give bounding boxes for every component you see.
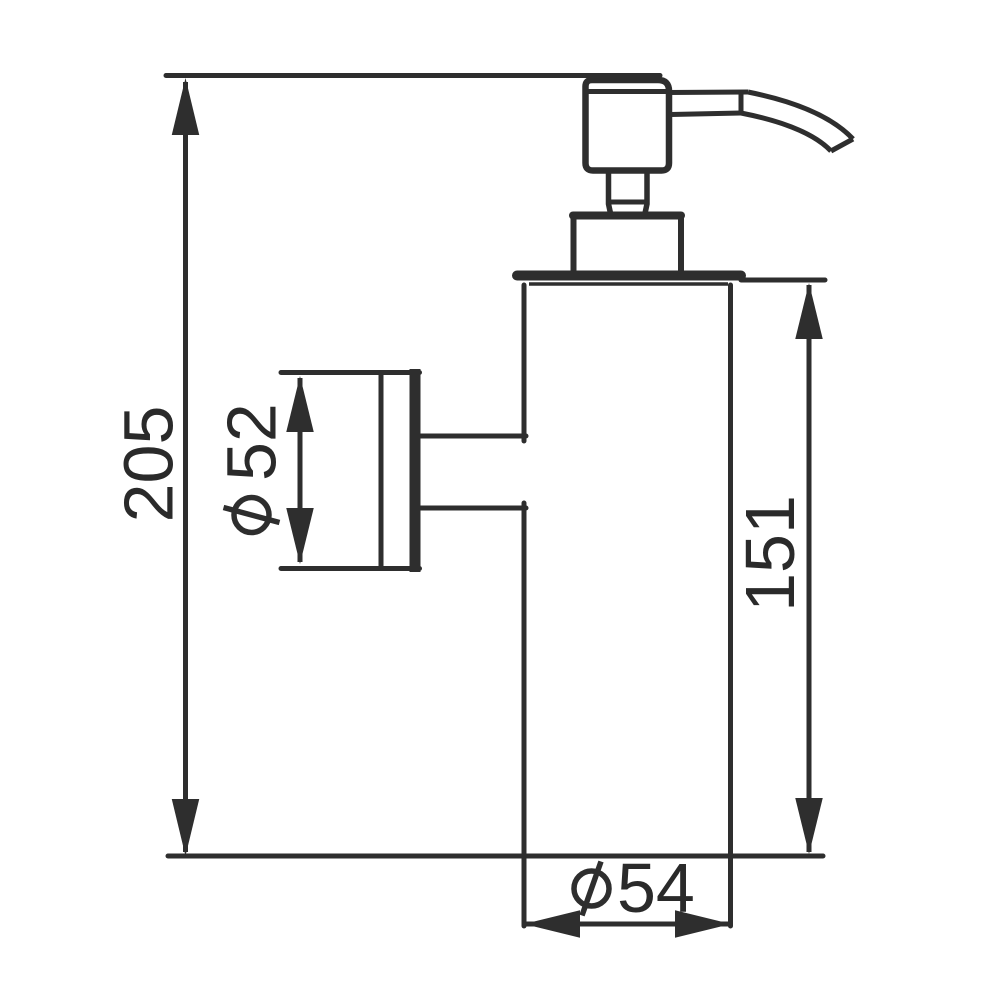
dimension line 151 [807, 285, 812, 852]
spout tip opening [831, 139, 853, 151]
dimension line 205 [183, 82, 188, 852]
svg-text:151: 151 [731, 495, 809, 612]
spout upper edge [668, 90, 748, 96]
wall plate inner line [379, 371, 384, 570]
wall plate right edge [410, 369, 421, 572]
arrow top 205 [172, 78, 200, 135]
arrow top 151 [795, 283, 823, 339]
spout outer curve [748, 92, 853, 139]
body right edge [728, 285, 733, 926]
dimension line diameter 54 [526, 922, 729, 927]
collar right edge [678, 215, 684, 271]
wall plate bottom edge [281, 566, 420, 571]
spout joint line [739, 93, 744, 114]
neck step line [606, 200, 650, 205]
arrow top 52 [286, 376, 314, 432]
neck left edge [609, 173, 612, 218]
arrow left 54 [524, 910, 580, 938]
svg-text:205: 205 [110, 406, 188, 523]
spout lower edge [671, 113, 741, 115]
arrow right 54 [675, 910, 731, 938]
collar top edge [573, 212, 681, 220]
extension line bottom (ground) [168, 854, 823, 859]
extension line top [166, 73, 660, 78]
collar left edge [571, 215, 577, 271]
pump head outline [586, 80, 670, 171]
dimension line diameter 52 [298, 378, 303, 562]
label diameter 52 [213, 403, 291, 532]
svg-text:52: 52 [213, 403, 291, 481]
extension line 151 top [741, 278, 825, 283]
flange [517, 271, 741, 281]
body left edge upper [522, 285, 527, 441]
mounting arm top edge [417, 434, 526, 439]
spout inner curve [741, 113, 831, 151]
mounting arm bottom edge [417, 506, 526, 511]
arrow bottom 151 [795, 798, 823, 854]
svg-text:54: 54 [617, 849, 695, 927]
wall plate top edge [281, 370, 420, 375]
arrow bottom 205 [172, 799, 200, 856]
body left edge lower [522, 503, 527, 926]
label diameter 54 [574, 849, 695, 927]
pump head cap line [586, 89, 667, 94]
neck right edge [644, 173, 647, 218]
arrow bottom 52 [286, 508, 314, 564]
body top edge [529, 282, 728, 286]
